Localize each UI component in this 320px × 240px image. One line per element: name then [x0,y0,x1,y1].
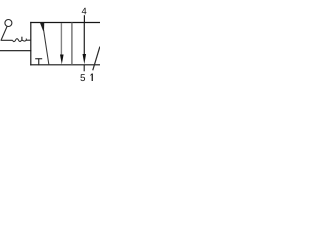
port 4 stub [83,15,85,22]
arrowhead down (port 5, right square) [83,54,87,64]
actuator wave tick [21,37,23,41]
valve body bottom edge [30,64,100,66]
left square flow path 1->4 diagonal [44,30,49,65]
arrowhead up (port 4, left square) [40,23,44,31]
valve V1 (5/2-way, lever operated) body left edge [30,22,32,66]
port 4 label [82,8,87,14]
valve body top edge [30,22,100,24]
port 5 label [80,74,85,81]
arrowhead down (port 3, left square) [60,55,64,65]
right square flow path 4->5 vertical shaft [83,23,85,55]
actuator stem wire (left part) [1,39,13,41]
blocked port 5 symbol (T) in left square [35,58,42,60]
air pipe wire to valve left side [0,50,31,52]
actuator stem wave (spring) [13,39,22,42]
manual lever knob circle [5,20,12,27]
lever arm [1,26,7,40]
actuator second tick [25,39,27,41]
port 1 label [90,73,92,81]
port 5 stub [83,65,85,72]
left square flow path 2->3 vertical [60,23,62,56]
right square flow path 1->2 diagonal (cropped) [93,47,100,71]
actuator stem second dip [22,39,26,42]
actuator stem wire (right part) [26,39,31,41]
valve position divider [71,23,73,65]
